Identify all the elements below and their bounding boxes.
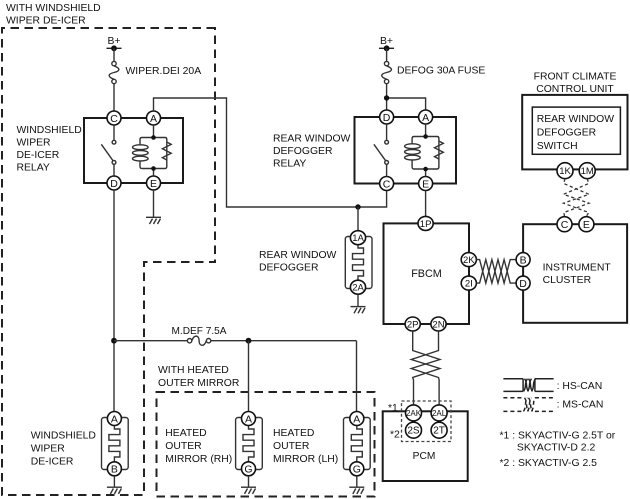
svg-text:A: A — [150, 113, 157, 125]
svg-text:DEFOGGER: DEFOGGER — [537, 128, 597, 139]
svg-text:C: C — [561, 219, 569, 231]
svg-text:FRONT CLIMATE: FRONT CLIMATE — [534, 72, 617, 83]
svg-text:G: G — [353, 464, 361, 476]
terminal 1M — [579, 163, 595, 179]
terminal C (relay 2) — [380, 177, 394, 191]
svg-text:2A: 2A — [352, 283, 364, 294]
note *1 engines — [500, 431, 616, 454]
svg-text:HEATED: HEATED — [273, 428, 314, 439]
terminal 2AL — [431, 405, 447, 421]
svg-text:WITH WINDSHIELD: WITH WINDSHIELD — [6, 3, 101, 14]
wire relay2-E to FBCM 1P — [425, 191, 427, 217]
svg-text:SKYACTIV-D 2.2: SKYACTIV-D 2.2 — [517, 443, 596, 454]
svg-text:DE-ICER: DE-ICER — [31, 457, 74, 468]
terminal E (instrument cluster) — [579, 217, 594, 232]
terminal G (mirror LH) — [350, 462, 364, 476]
node B+ (left) — [107, 36, 122, 51]
svg-text:DEFOGGER: DEFOGGER — [259, 263, 319, 274]
svg-text:2I: 2I — [465, 279, 473, 290]
svg-text:MIRROR (RH): MIRROR (RH) — [165, 454, 232, 465]
svg-text:: MS-CAN: : MS-CAN — [557, 400, 604, 411]
dashed option box WITH HEATED OUTER MIRROR — [157, 392, 375, 497]
svg-text:OUTER: OUTER — [273, 441, 310, 452]
label INSTRUMENT CLUSTER — [543, 263, 612, 287]
terminal 2N — [431, 317, 446, 331]
svg-text:M.DEF 7.5A: M.DEF 7.5A — [172, 326, 227, 337]
terminal D (relay 2) — [380, 110, 394, 124]
svg-text:1A: 1A — [352, 233, 364, 244]
svg-text:E: E — [422, 178, 429, 190]
svg-text:INSTRUMENT: INSTRUMENT — [543, 263, 612, 274]
svg-text:2AL: 2AL — [432, 409, 447, 418]
label HEATED OUTER MIRROR (RH) — [165, 428, 232, 465]
switch contacts in relay 1 — [101, 125, 116, 176]
ground (rear window defogger) — [351, 295, 366, 314]
svg-text:FBCM: FBCM — [411, 268, 442, 280]
terminal 1P — [418, 216, 433, 230]
svg-text:D: D — [383, 112, 391, 124]
svg-text:OUTER: OUTER — [165, 441, 202, 452]
front climate control unit box — [522, 95, 627, 169]
rear window defogger switch box — [532, 107, 620, 154]
dashed terminal group box — [402, 401, 452, 442]
svg-text:WITH HEATED: WITH HEATED — [158, 365, 229, 376]
fuse DEFOG 30A — [382, 48, 392, 110]
svg-text:*2: *2 — [390, 430, 400, 441]
ground (de-icer) — [107, 476, 122, 494]
label REAR WINDOW DEFOGGER SWITCH — [537, 114, 615, 152]
terminal 2I — [461, 276, 476, 290]
terminal G (mirror RH) — [242, 462, 256, 476]
terminal 2T — [431, 422, 447, 438]
label WITH WINDSHIELD WIPER DE-ICER — [6, 3, 101, 27]
ground (relay 1 E) — [146, 190, 161, 224]
terminal D (instrument cluster) — [516, 276, 530, 290]
legend HS-CAN symbol — [503, 379, 553, 392]
svg-text:OUTER MIRROR: OUTER MIRROR — [158, 378, 240, 389]
svg-text:1M: 1M — [581, 166, 594, 177]
svg-text:WIPER: WIPER — [31, 444, 66, 455]
svg-text:B: B — [520, 254, 527, 266]
terminal 2P — [405, 317, 420, 331]
terminal E — [147, 176, 161, 190]
svg-text:A: A — [353, 413, 360, 425]
label WITH HEATED OUTER MIRROR — [158, 365, 240, 389]
svg-text:REAR WINDOW: REAR WINDOW — [259, 250, 337, 261]
terminal A (mirror RH) — [242, 412, 256, 426]
svg-text:1P: 1P — [420, 219, 432, 230]
wire defogger drop — [357, 207, 359, 231]
svg-text:2N: 2N — [432, 320, 444, 331]
svg-text:WINDSHIELD: WINDSHIELD — [17, 125, 82, 136]
instrument cluster box — [523, 224, 627, 323]
svg-text:WINDSHIELD: WINDSHIELD — [31, 431, 96, 442]
PCM box — [383, 411, 468, 481]
label HEATED OUTER MIRROR (LH) — [273, 428, 338, 465]
terminal B — [516, 253, 530, 267]
svg-text:A: A — [245, 413, 252, 425]
terminal D — [107, 176, 121, 190]
relay coil and resistor (relay 2) — [405, 124, 444, 177]
svg-text:DEFOGGER: DEFOGGER — [273, 146, 333, 157]
svg-text:*2 : SKYACTIV-G 2.5: *2 : SKYACTIV-G 2.5 — [500, 458, 598, 469]
terminal B (de-icer) — [107, 462, 121, 476]
label WINDSHIELD WIPER DE-ICER RELAY — [17, 125, 82, 174]
terminal C — [107, 111, 121, 125]
FBCM box — [384, 223, 470, 324]
dashed option box WITH WINDSHIELD WIPER DE-ICER — [2, 28, 215, 495]
svg-text:WIPER DE-ICER: WIPER DE-ICER — [6, 16, 86, 27]
terminal A (de-icer) — [107, 412, 121, 426]
svg-text:RELAY: RELAY — [17, 163, 50, 174]
svg-text:MIRROR (LH): MIRROR (LH) — [273, 454, 338, 465]
svg-text:B+: B+ — [380, 36, 393, 47]
svg-text:REAR WINDOW: REAR WINDOW — [273, 134, 351, 145]
component HEATED OUTER MIRROR (LH) — [344, 418, 371, 470]
label REAR WINDOW DEFOGGER — [259, 250, 337, 274]
svg-text:CLUSTER: CLUSTER — [543, 275, 592, 286]
svg-text:2AK: 2AK — [406, 409, 422, 418]
MS-CAN dashed twisted pair — [564, 179, 590, 217]
relay box REAR WINDOW DEFOGGER RELAY — [355, 117, 457, 184]
svg-text:2T: 2T — [433, 426, 445, 437]
label WINDSHIELD WIPER DE-ICER (component) — [31, 431, 96, 468]
svg-text:WIPER.DEI 20A: WIPER.DEI 20A — [126, 66, 202, 77]
svg-text:DEFOG 30A FUSE: DEFOG 30A FUSE — [397, 66, 485, 77]
terminal A — [147, 111, 161, 125]
svg-text:HEATED: HEATED — [165, 428, 206, 439]
label REAR WINDOW DEFOGGER RELAY — [273, 134, 351, 170]
terminal 1K — [557, 163, 573, 179]
node junction at fuse output — [384, 95, 389, 100]
wire branch fuse to relay2 A — [387, 98, 426, 110]
fuse M.DEF 7.5A — [114, 336, 357, 411]
svg-text:REAR WINDOW: REAR WINDOW — [537, 114, 615, 125]
svg-text:D: D — [110, 178, 118, 190]
svg-text:E: E — [583, 219, 590, 231]
component REAR WINDOW DEFOGGER — [345, 237, 372, 289]
svg-text:CONTROL UNIT: CONTROL UNIT — [536, 84, 614, 95]
terminal E (relay 2) — [419, 177, 433, 191]
terminal 2K — [461, 253, 476, 267]
svg-text:G: G — [244, 464, 252, 476]
legend MS-CAN symbol — [503, 398, 553, 412]
svg-text:DE-ICER: DE-ICER — [17, 150, 60, 161]
label FRONT CLIMATE CONTROL UNIT — [534, 72, 617, 96]
HS-CAN twisted pair FBCM to instrument cluster — [476, 260, 516, 284]
svg-text:: HS-CAN: : HS-CAN — [557, 381, 603, 392]
ground (mirror LH) — [349, 476, 364, 494]
component WINDSHIELD WIPER DE-ICER — [102, 418, 129, 470]
svg-text:RELAY: RELAY — [273, 159, 306, 170]
svg-text:A: A — [422, 112, 429, 124]
ground (mirror RH) — [241, 476, 256, 494]
svg-text:A: A — [111, 413, 118, 425]
node junction M.DEF branch — [111, 338, 117, 344]
svg-text:*1 : SKYACTIV-G 2.5T or: *1 : SKYACTIV-G 2.5T or — [500, 431, 616, 442]
terminal 1A — [350, 231, 365, 245]
terminal C (instrument cluster) — [557, 217, 572, 232]
node junction to rear window defogger — [355, 204, 360, 209]
relay coil and resistor (relay 1) — [133, 125, 172, 176]
terminal 2A — [350, 280, 365, 294]
svg-text:PCM: PCM — [413, 451, 436, 462]
svg-text:2P: 2P — [407, 320, 419, 331]
svg-text:*1: *1 — [388, 403, 398, 414]
switch contacts in relay 2 — [374, 124, 389, 177]
node junction RH mirror branch — [246, 338, 252, 344]
svg-text:C: C — [110, 113, 118, 125]
svg-text:B+: B+ — [108, 36, 121, 47]
svg-text:D: D — [519, 278, 527, 290]
svg-text:B: B — [111, 464, 118, 476]
terminal 2AK — [406, 405, 422, 421]
fuse WIPER.DEI 20A — [109, 48, 119, 111]
node B+ (right) — [379, 36, 394, 51]
svg-text:SWITCH: SWITCH — [537, 141, 578, 152]
svg-text:E: E — [150, 178, 157, 190]
svg-text:WIPER: WIPER — [17, 138, 52, 149]
terminal A (mirror LH) — [350, 412, 364, 426]
wire to RH mirror — [248, 341, 250, 412]
terminal A (relay 2) — [419, 110, 433, 124]
svg-text:1K: 1K — [559, 166, 571, 177]
svg-text:C: C — [383, 178, 391, 190]
wire relay1-D down to de-icer — [113, 190, 115, 412]
svg-text:2S: 2S — [407, 426, 420, 437]
svg-text:2K: 2K — [463, 255, 475, 266]
wire relay1-A to relay2-C — [154, 98, 387, 207]
component HEATED OUTER MIRROR (RH) — [236, 418, 263, 470]
terminal 2S — [406, 422, 422, 438]
relay box WINDSHIELD WIPER DE-ICER RELAY — [84, 118, 183, 183]
wires 2P 2N down — [411, 331, 440, 404]
